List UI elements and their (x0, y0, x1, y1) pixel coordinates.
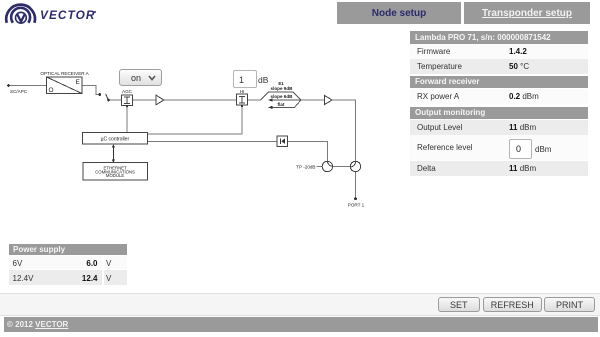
optical receiver O/E box (47, 77, 83, 94)
wire input SC/APC (9, 85, 47, 87)
svg-text:OPTICAL RECEIVER A: OPTICAL RECEIVER A (40, 71, 89, 76)
double arrow uC-ethernet (112, 147, 114, 161)
wire switch to AGC (109, 99, 122, 101)
TP coupler circle (322, 161, 332, 171)
label dB (258, 75, 268, 85)
row Output Level (410, 120, 588, 135)
select on (119, 69, 162, 86)
node input dot (7, 84, 10, 87)
wire HI to equalizer (248, 99, 261, 101)
wire TP tap stub (317, 166, 323, 168)
uC controller box (83, 133, 148, 145)
svg-text:flat: flat (278, 102, 285, 107)
row Reference level with input (410, 135, 588, 160)
attenuator AGC box (121, 95, 132, 106)
svg-text:µC controller: µC controller (101, 137, 130, 143)
wire detector to TP coupler (288, 142, 328, 162)
detector box (277, 136, 288, 146)
wire coupler down to port (355, 172, 357, 198)
amplifier 2 (324, 95, 332, 104)
wire between couplers (333, 166, 351, 168)
row Delta (410, 161, 588, 176)
svg-text:E: E (76, 79, 81, 86)
row 12.4V (9, 270, 127, 285)
header Output monitoring (410, 107, 588, 120)
button REFRESH (483, 297, 542, 312)
svg-text:AGC: AGC (122, 89, 133, 94)
svg-text:SC/APC: SC/APC (10, 89, 28, 94)
header Lambda PRO 71 (410, 31, 588, 44)
output coupler circle (350, 161, 360, 171)
button PRINT (544, 297, 595, 312)
row Temperature (410, 59, 588, 74)
logo wordmark (40, 8, 96, 22)
input attenuation 1 dB (233, 70, 257, 88)
wire AGC to amp1 (133, 99, 157, 101)
amplifier 1 (156, 95, 164, 104)
button SET (438, 297, 481, 312)
wire uC to detector (147, 141, 277, 143)
attenuator HI box (236, 94, 247, 105)
tab Transponder setup (464, 2, 590, 24)
tab Node setup (337, 2, 461, 24)
row 6V (9, 256, 127, 270)
equalizer selector (261, 92, 302, 107)
svg-text:O: O (49, 87, 54, 94)
wire amp1 to HI attenuator (164, 99, 236, 101)
ethernet communications module box (83, 163, 147, 180)
svg-text:PORT 1: PORT 1 (348, 203, 365, 208)
header Power supply (9, 244, 127, 255)
logo icon (0, 0, 40, 27)
svg-text:MODULE: MODULE (106, 173, 125, 178)
wire receiver output (82, 86, 99, 95)
schematic SVG (0, 0, 400, 230)
row RX power A (410, 89, 588, 104)
wire HI control down and left (147, 105, 242, 134)
switch (98, 93, 101, 96)
row Firmware (410, 44, 588, 59)
footer bar (4, 317, 598, 332)
svg-text:slope 6dB: slope 6dB (271, 94, 294, 99)
svg-text:TP -20dB: TP -20dB (296, 164, 315, 169)
wire equalizer to amp2 (301, 99, 324, 101)
wire amp2 to output corner (332, 100, 356, 161)
wire AGC control down (126, 105, 128, 132)
port dot (354, 197, 357, 200)
footer strip (0, 293, 600, 316)
svg-text:slope 9dB: slope 9dB (271, 86, 294, 91)
header Forward receiver (410, 76, 588, 88)
svg-text:HI: HI (240, 89, 245, 94)
